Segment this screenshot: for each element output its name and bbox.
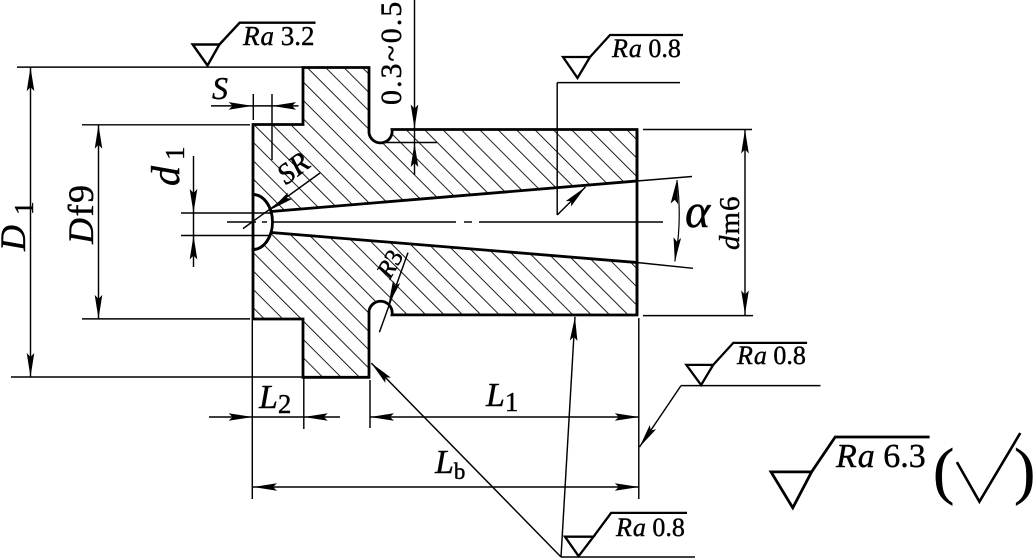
svg-text:(: ( xyxy=(933,435,954,506)
dimension alpha (angle arc) xyxy=(675,180,679,262)
part body upper half (hatched section) xyxy=(253,68,637,212)
svg-text:Ra 6.3: Ra 6.3 xyxy=(835,438,926,475)
svg-text:0.3~0.5: 0.3~0.5 xyxy=(375,0,408,105)
svg-text:Ra 3.2: Ra 3.2 xyxy=(242,21,315,51)
taper extension lines xyxy=(637,177,693,269)
svg-text:Ra 0.8: Ra 0.8 xyxy=(615,513,685,542)
svg-text:d1: d1 xyxy=(143,141,190,187)
dimension d1 xyxy=(181,156,271,267)
dimension Df9 xyxy=(82,125,250,319)
svg-text:Lb: Lb xyxy=(434,444,465,484)
svg-text:L1: L1 xyxy=(485,377,518,417)
right end face line through taper opening xyxy=(636,130,639,316)
dimension 0.3~0.5 xyxy=(376,0,437,175)
dimension D1 xyxy=(11,67,303,377)
roughness Ra 3.2 (top left) xyxy=(193,23,316,66)
svg-text:Ra 0.8: Ra 0.8 xyxy=(736,341,806,370)
svg-text:Ra 0.8: Ra 0.8 xyxy=(611,34,681,63)
svg-text:D1: D1 xyxy=(0,192,39,253)
svg-text:): ) xyxy=(1014,435,1033,506)
leader R3 xyxy=(379,253,408,333)
roughness Ra 0.8 (top, taper bore) xyxy=(563,35,683,78)
dimension L2 xyxy=(209,319,340,499)
svg-text:dm6: dm6 xyxy=(714,195,746,250)
roughness Ra 6.3 (general note) xyxy=(771,437,930,508)
roughness Ra 0.8 (right end face) xyxy=(686,343,807,385)
leader SR xyxy=(243,173,320,229)
left face line through sphere opening xyxy=(252,193,255,251)
svg-text:S: S xyxy=(212,70,228,106)
dimension Lb xyxy=(253,486,639,488)
spherical cavity SR arc xyxy=(253,195,273,250)
svg-text:α: α xyxy=(685,185,711,238)
roughness Ra 0.8 (bottom) with two leaders xyxy=(565,513,687,556)
centerline xyxy=(227,221,663,223)
dimension L1 xyxy=(370,318,639,499)
part body lower half (hatched section) xyxy=(253,233,637,378)
dimension dm6 xyxy=(643,130,753,316)
svg-text:Df9: Df9 xyxy=(61,184,101,246)
dimension S xyxy=(211,94,299,160)
svg-text:L2: L2 xyxy=(258,379,291,419)
